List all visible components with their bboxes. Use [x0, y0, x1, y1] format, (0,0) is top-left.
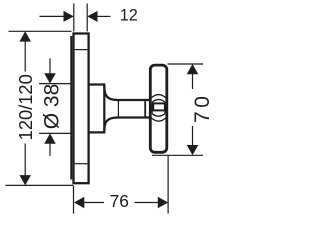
handle face outer contour right side — [166, 99, 169, 118]
dim 70: top arrow — [187, 64, 199, 74]
dim 12: left extension line — [73, 4, 75, 32]
dim 12: right dimension line — [97, 15, 110, 17]
dim 12: left arrow — [64, 11, 74, 22]
dim 76: left extension line — [73, 186, 75, 214]
svg-text:Ø 38: Ø 38 — [41, 84, 64, 130]
dim 12: right arrow — [87, 11, 97, 22]
dim 12: left dimension line — [40, 15, 65, 17]
handle face outer contour top arc — [151, 95, 167, 99]
dim diameter 38: bottom tail line — [49, 143, 51, 155]
wall plate (escutcheon 120x120, side view) — [74, 34, 89, 184]
dim 76: right arrow — [158, 197, 168, 209]
dim 12: right extension line — [86, 4, 88, 32]
stem flare bottom curve + neck bottom line — [104, 118, 150, 132]
dim 76: right extension line — [167, 155, 169, 213]
dim diameter 38: bottom arrow — [44, 133, 56, 143]
handle face outer contour left side — [149, 99, 152, 118]
dim diameter 38: top arrow — [44, 73, 56, 83]
svg-text:12: 12 — [120, 7, 138, 25]
svg-text:76: 76 — [110, 191, 129, 211]
dim 70: bottom extension line — [152, 154, 203, 156]
rosette (diameter 38 hub) — [90, 85, 105, 133]
neck end cap line — [144, 101, 146, 116]
handle face outer contour bottom arc — [151, 117, 167, 121]
dim 76: right dimension line — [135, 202, 159, 204]
wall plate interior line (bottom) — [75, 163, 88, 165]
dim diameter 38: bottom extension line — [39, 132, 71, 134]
dim 70: lower line segment — [192, 126, 194, 146]
dim diameter 38: top extension line — [39, 83, 71, 85]
dim 120/120: bottom arrow — [19, 175, 31, 185]
dim 70: bottom arrow — [187, 145, 199, 155]
handle face inner contour left side — [151, 102, 153, 114]
dim 70: upper line segment — [192, 74, 194, 89]
stem flare top curve + neck top line — [104, 86, 150, 101]
handle body (70 high, side view) — [150, 65, 167, 152]
svg-text:120/120: 120/120 — [15, 74, 36, 140]
dim 76: left dimension line — [84, 202, 104, 204]
handle symbol plate rectangle — [153, 103, 165, 110]
handle face inner contour right side — [164, 102, 166, 114]
dim 120/120: bottom extension line — [6, 184, 74, 186]
wall plate rear flange line — [70, 36, 72, 180]
handle face inner contour bottom arc — [152, 114, 165, 116]
dim 76: left arrow — [74, 197, 84, 209]
dim 120/120: top arrow — [19, 31, 31, 41]
dim 70: top extension line — [168, 63, 204, 65]
dim 120/120: upper line segment — [24, 41, 26, 71]
dim diameter 38: top tail line — [49, 58, 51, 73]
handle face inner contour top arc — [152, 100, 165, 102]
neck joint line — [117, 101, 119, 117]
svg-text:70: 70 — [191, 93, 214, 123]
dim 120/120: top extension line — [9, 30, 72, 32]
wall plate interior line (top) — [75, 49, 88, 51]
dim 120/120: lower line segment — [24, 144, 26, 176]
